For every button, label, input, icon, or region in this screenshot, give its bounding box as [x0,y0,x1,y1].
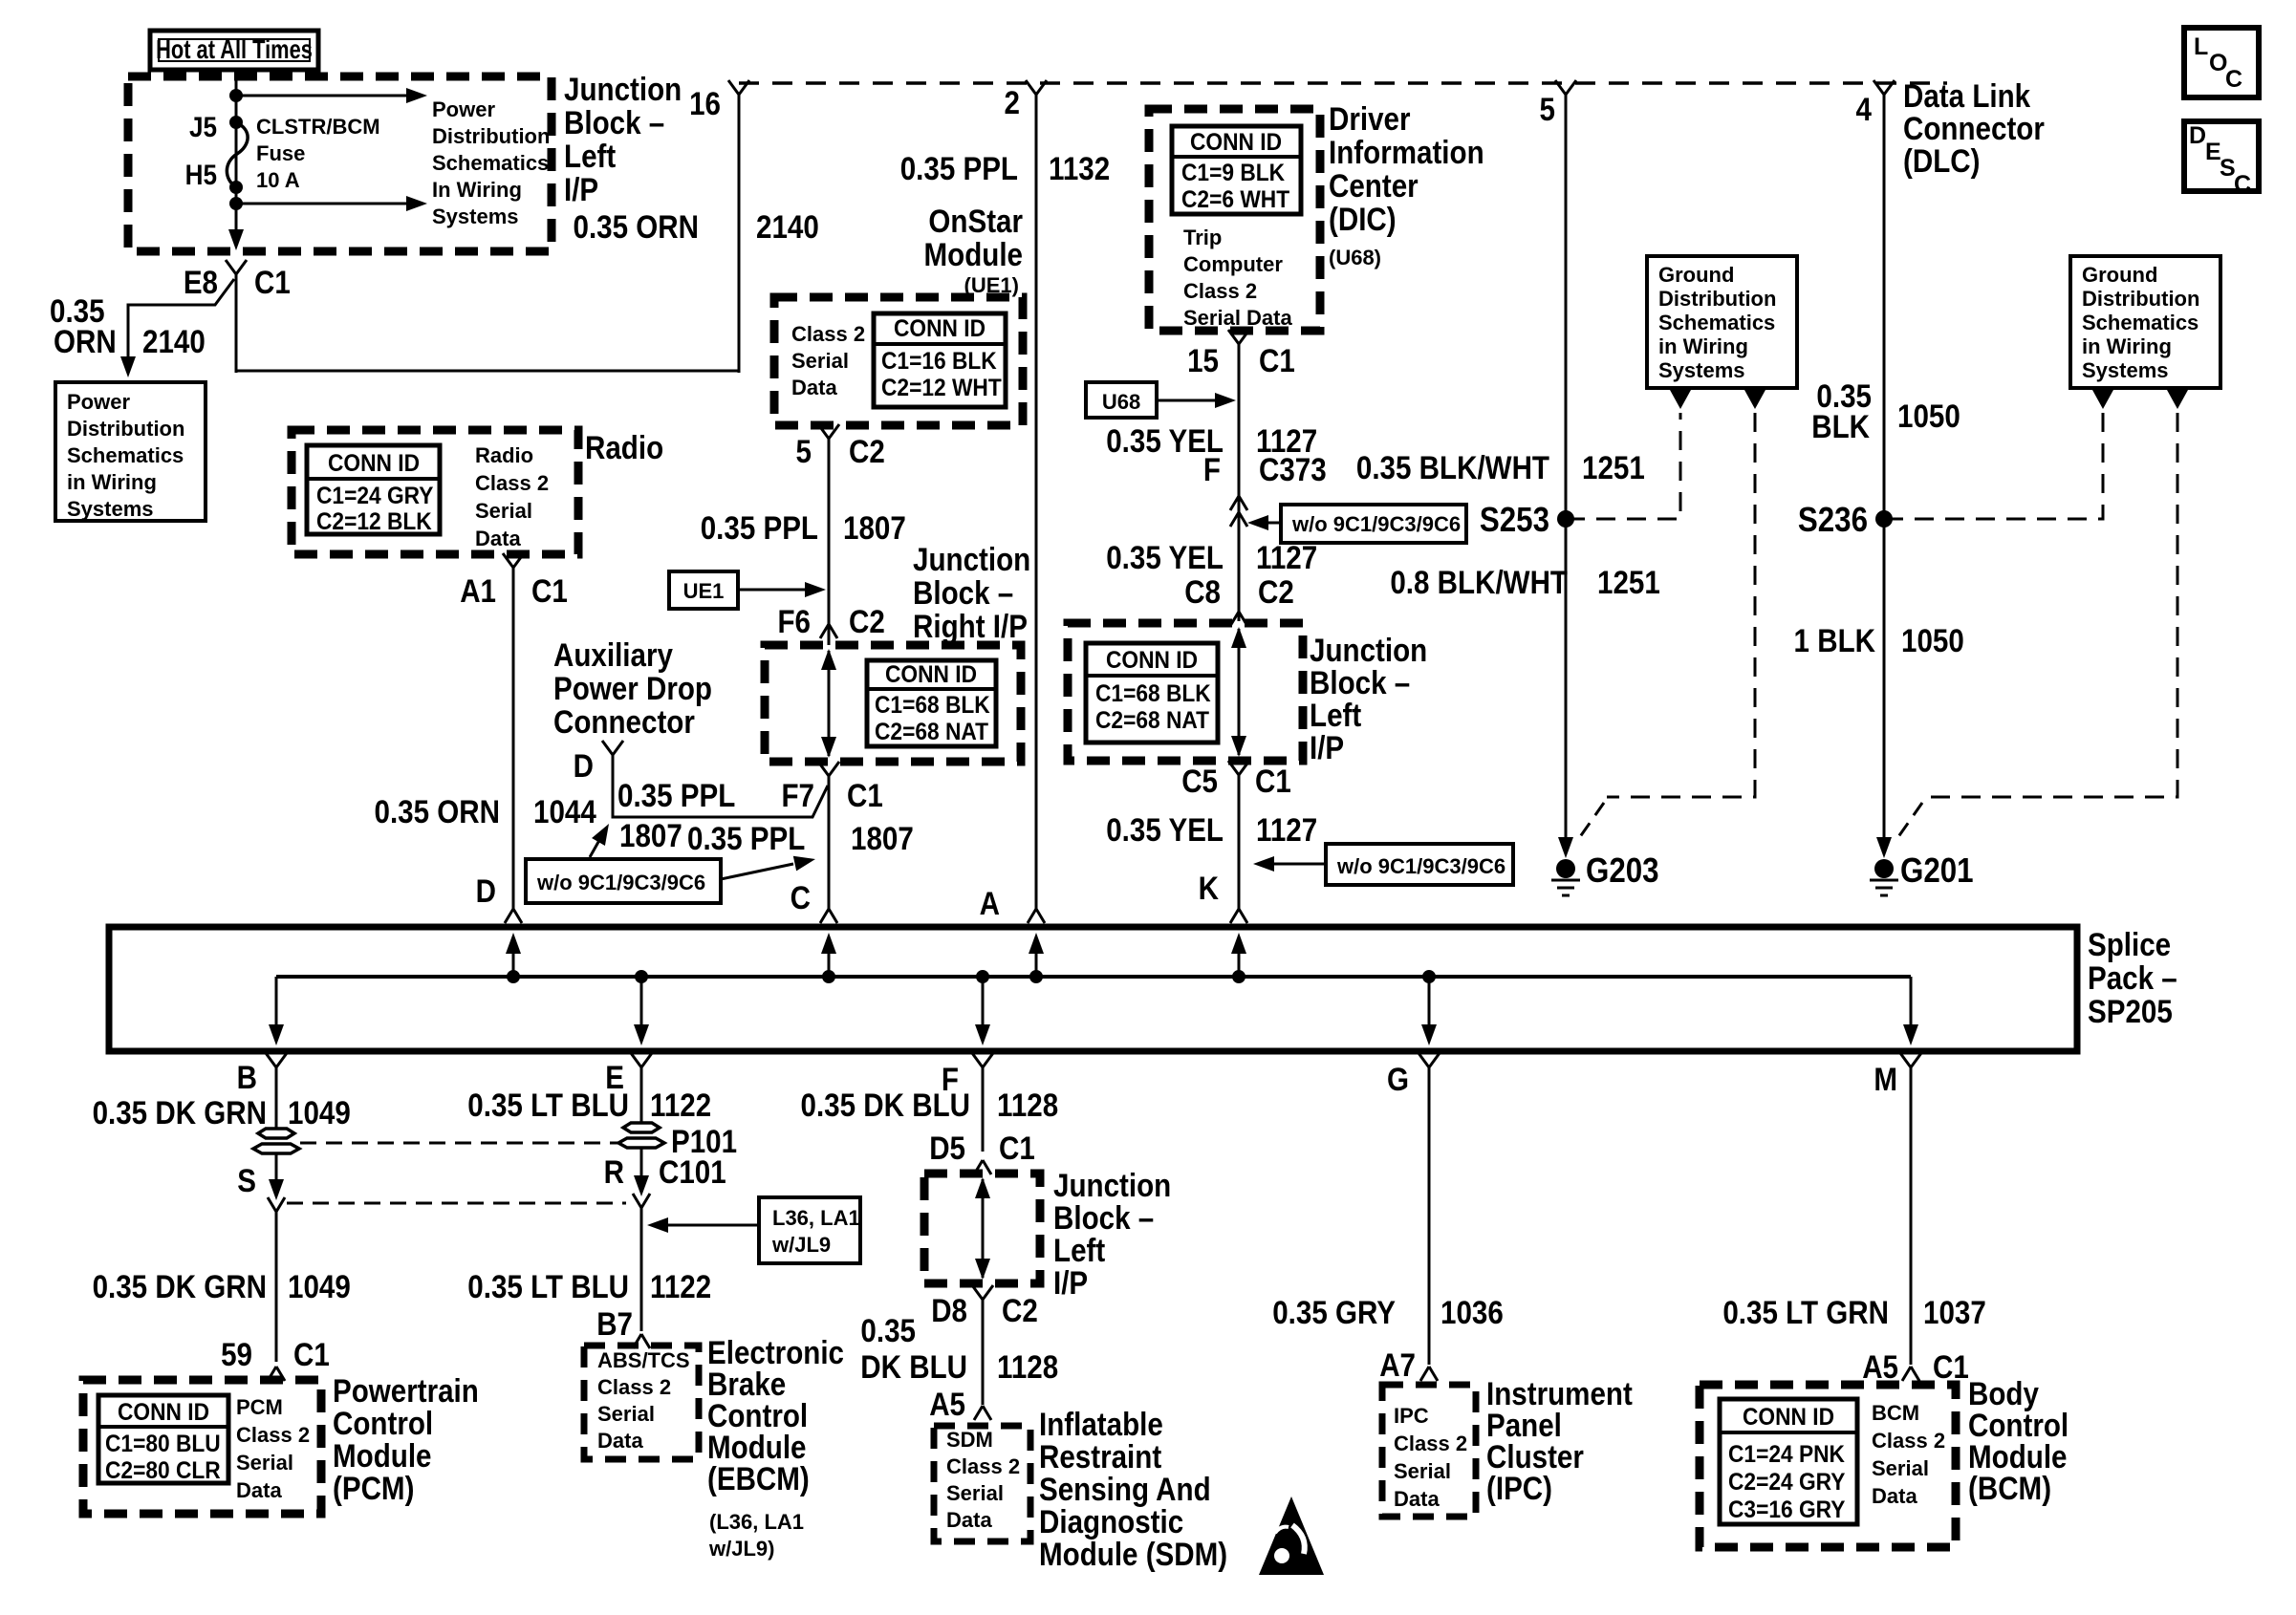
svg-text:C2=68 NAT: C2=68 NAT [875,719,988,745]
svg-text:C101: C101 [659,1153,726,1190]
svg-text:Driver: Driver [1329,100,1410,137]
svg-text:Serial: Serial [791,349,849,373]
svg-text:1807: 1807 [619,817,682,853]
svg-text:0.35 ORN: 0.35 ORN [574,208,699,245]
svg-text:0.35 PPL: 0.35 PPL [701,509,818,546]
svg-text:Center: Center [1329,167,1419,204]
svg-text:Hot at All Times: Hot at All Times [156,34,313,64]
svg-text:Control: Control [333,1405,433,1441]
svg-text:Distribution: Distribution [67,417,184,441]
svg-text:0.35 BLK/WHT: 0.35 BLK/WHT [1356,449,1550,485]
svg-text:0.35 DK BLU: 0.35 DK BLU [801,1087,970,1123]
svg-text:Class 2: Class 2 [597,1375,671,1399]
svg-text:0.35 DK GRN: 0.35 DK GRN [93,1268,267,1304]
svg-text:2140: 2140 [142,323,206,359]
svg-text:Data: Data [791,376,837,399]
svg-text:Data: Data [475,527,521,550]
svg-text:F6: F6 [777,603,811,639]
svg-text:CONN ID: CONN ID [1190,129,1282,156]
svg-text:A1: A1 [460,572,496,609]
svg-text:Block –: Block – [913,574,1013,611]
svg-text:Block –: Block – [564,104,664,140]
svg-text:10 A: 10 A [256,168,300,192]
svg-text:1807: 1807 [851,820,914,856]
svg-text:15: 15 [1187,342,1219,378]
svg-text:1044: 1044 [533,793,596,829]
svg-text:C2=80 CLR: C2=80 CLR [105,1457,221,1484]
svg-text:A: A [980,885,1000,921]
svg-text:w/JL9): w/JL9) [708,1537,774,1561]
svg-text:Serial Data: Serial Data [1183,306,1292,330]
svg-text:D: D [574,747,594,784]
svg-text:Schematics: Schematics [432,151,549,175]
svg-text:C1=9 BLK: C1=9 BLK [1181,160,1286,186]
svg-text:Junction: Junction [564,71,682,107]
svg-text:0.35 PPL: 0.35 PPL [617,777,735,813]
svg-text:2: 2 [1005,84,1020,120]
svg-text:Splice: Splice [2088,926,2171,962]
svg-text:J5: J5 [189,111,217,142]
svg-text:Left: Left [1310,697,1362,733]
svg-text:U68: U68 [1102,390,1140,414]
svg-text:0.35 DK GRN: 0.35 DK GRN [93,1094,267,1130]
svg-text:Distribution: Distribution [432,124,550,148]
svg-text:w/o 9C1/9C3/9C6: w/o 9C1/9C3/9C6 [536,871,705,894]
svg-text:4: 4 [1856,91,1873,127]
svg-text:C2: C2 [849,433,885,469]
svg-text:C: C [791,879,811,915]
svg-text:(IPC): (IPC) [1486,1470,1552,1506]
svg-text:IPC: IPC [1394,1404,1429,1428]
svg-text:Radio: Radio [475,443,533,467]
svg-text:(DLC): (DLC) [1903,142,1980,179]
svg-text:2140: 2140 [756,208,819,245]
svg-text:L: L [2194,33,2208,60]
svg-text:1132: 1132 [1049,150,1110,186]
svg-text:OnStar: OnStar [928,203,1023,239]
svg-text:0.35 PPL: 0.35 PPL [687,820,805,856]
svg-text:Auxiliary: Auxiliary [553,636,673,673]
svg-text:Ground: Ground [1658,263,1734,287]
svg-text:C2: C2 [1258,573,1294,610]
svg-text:M: M [1874,1061,1897,1097]
svg-text:0.35 LT BLU: 0.35 LT BLU [467,1087,629,1123]
svg-text:1049: 1049 [288,1268,351,1304]
svg-text:Class 2: Class 2 [1394,1432,1467,1455]
svg-text:5: 5 [1540,91,1555,127]
svg-text:C2: C2 [849,603,885,639]
svg-text:C8: C8 [1184,573,1221,610]
svg-text:CONN ID: CONN ID [118,1399,209,1426]
svg-text:Trip: Trip [1183,226,1222,249]
svg-text:Data: Data [946,1508,992,1532]
svg-text:Distribution: Distribution [1658,287,1776,311]
svg-text:0.35: 0.35 [860,1312,916,1348]
svg-text:Data: Data [597,1429,643,1453]
svg-text:A7: A7 [1379,1346,1416,1383]
svg-text:Serial: Serial [475,499,532,523]
svg-text:C2=6 WHT: C2=6 WHT [1181,186,1289,213]
svg-text:CONN ID: CONN ID [894,315,986,342]
svg-text:A5: A5 [1862,1348,1898,1385]
svg-text:in Wiring: in Wiring [67,470,157,494]
svg-text:(PCM): (PCM) [333,1470,414,1506]
svg-text:1251: 1251 [1582,449,1645,485]
svg-text:Systems: Systems [432,205,519,228]
svg-text:C1: C1 [1255,763,1291,799]
svg-text:ABS/TCS: ABS/TCS [597,1348,690,1372]
svg-text:1807: 1807 [843,509,906,546]
svg-text:Junction: Junction [1310,632,1427,668]
svg-text:L36, LA1: L36, LA1 [772,1206,860,1230]
svg-text:I/P: I/P [564,171,598,207]
svg-text:C1=80 BLU: C1=80 BLU [105,1431,221,1457]
svg-text:Junction: Junction [1053,1167,1171,1203]
svg-text:CONN ID: CONN ID [885,661,977,688]
svg-text:Serial: Serial [1872,1456,1929,1480]
svg-text:C1=24 PNK: C1=24 PNK [1728,1441,1846,1468]
svg-text:Module (SDM): Module (SDM) [1039,1536,1227,1572]
svg-text:CONN ID: CONN ID [328,450,420,477]
svg-text:in Wiring: in Wiring [2082,334,2172,358]
svg-text:Ground: Ground [2082,263,2157,287]
svg-text:1128: 1128 [997,1348,1058,1385]
svg-text:(U68): (U68) [1329,246,1381,269]
svg-text:C2=68 NAT: C2=68 NAT [1095,707,1209,734]
svg-text:Systems: Systems [2082,358,2169,382]
svg-text:Data: Data [1394,1487,1440,1511]
svg-text:C1=68 BLK: C1=68 BLK [875,692,990,719]
svg-text:0.35 ORN: 0.35 ORN [375,793,500,829]
svg-text:Serial: Serial [946,1481,1004,1505]
svg-text:A5: A5 [929,1386,965,1422]
svg-text:PCM: PCM [236,1395,283,1419]
svg-text:F: F [1203,451,1221,487]
svg-text:C1=24 GRY: C1=24 GRY [316,483,433,509]
svg-text:Sensing And: Sensing And [1039,1471,1211,1507]
svg-text:S: S [237,1162,256,1198]
svg-text:Class 2: Class 2 [1872,1429,1945,1453]
svg-text:5: 5 [796,433,812,469]
svg-text:Left: Left [564,138,617,174]
svg-text:C1: C1 [847,777,883,813]
svg-text:D8: D8 [931,1292,967,1328]
svg-text:D: D [2189,122,2206,149]
svg-text:Right I/P: Right I/P [913,608,1028,644]
svg-text:SP205: SP205 [2088,993,2173,1029]
svg-text:Diagnostic: Diagnostic [1039,1503,1183,1540]
svg-text:1 BLK: 1 BLK [1794,622,1875,658]
svg-text:1050: 1050 [1897,398,1960,434]
svg-text:Restraint: Restraint [1039,1438,1162,1475]
svg-text:C373: C373 [1259,451,1327,487]
svg-text:Class 2: Class 2 [791,322,865,346]
svg-text:I/P: I/P [1053,1264,1088,1301]
svg-text:C1=68 BLK: C1=68 BLK [1095,680,1211,707]
svg-text:Power: Power [67,390,130,414]
svg-text:1127: 1127 [1256,811,1317,848]
svg-text:S236: S236 [1798,501,1868,540]
svg-text:B: B [237,1059,257,1095]
svg-text:0.35 PPL: 0.35 PPL [900,150,1018,186]
svg-text:C3=16 GRY: C3=16 GRY [1728,1497,1845,1523]
svg-text:Power Drop: Power Drop [553,670,712,706]
svg-text:(EBCM): (EBCM) [707,1460,810,1497]
svg-text:(L36, LA1: (L36, LA1 [709,1510,804,1534]
svg-text:Module: Module [333,1437,431,1474]
svg-text:K: K [1199,870,1219,906]
svg-text:BCM: BCM [1872,1401,1919,1425]
svg-text:UE1: UE1 [683,579,725,603]
svg-text:1122: 1122 [650,1087,711,1123]
svg-text:Data: Data [236,1478,282,1502]
svg-text:Class 2: Class 2 [475,471,549,495]
svg-text:59: 59 [221,1336,252,1372]
svg-text:CONN ID: CONN ID [1743,1404,1834,1431]
svg-text:Inflatable: Inflatable [1039,1406,1163,1442]
svg-text:G203: G203 [1586,851,1659,891]
svg-text:Class 2: Class 2 [946,1454,1020,1478]
svg-text:w/o 9C1/9C3/9C6: w/o 9C1/9C3/9C6 [1291,512,1461,536]
svg-text:C5: C5 [1181,763,1218,799]
svg-text:1251: 1251 [1597,564,1660,600]
svg-text:Fuse: Fuse [256,141,305,165]
svg-text:Powertrain: Powertrain [333,1372,479,1409]
svg-text:Serial: Serial [236,1451,293,1475]
svg-text:Class 2: Class 2 [236,1423,310,1447]
svg-text:16: 16 [689,85,721,121]
svg-text:0.35 YEL: 0.35 YEL [1106,539,1224,575]
svg-text:C2: C2 [1002,1292,1038,1328]
svg-text:C1=16 BLK: C1=16 BLK [881,348,997,375]
svg-text:SDM: SDM [946,1428,993,1452]
svg-text:Information: Information [1329,134,1484,170]
svg-text:Module: Module [924,236,1023,272]
svg-text:Distribution: Distribution [2082,287,2199,311]
svg-text:Radio: Radio [585,429,663,465]
svg-text:(BCM): (BCM) [1968,1470,2051,1506]
svg-text:Data: Data [1872,1484,1917,1508]
svg-text:Connector: Connector [1903,110,2045,146]
svg-text:Serial: Serial [1394,1459,1451,1483]
svg-text:Junction: Junction [913,541,1030,577]
svg-text:C2=24 GRY: C2=24 GRY [1728,1469,1845,1496]
svg-text:Block –: Block – [1310,664,1410,700]
svg-text:(DIC): (DIC) [1329,201,1397,237]
svg-text:C: C [2225,66,2242,93]
svg-text:C: C [2234,171,2251,198]
svg-text:D5: D5 [929,1130,965,1166]
svg-text:Schematics: Schematics [1658,311,1775,334]
svg-text:E8: E8 [184,264,218,300]
svg-text:BLK: BLK [1811,408,1870,444]
svg-text:Serial: Serial [597,1402,655,1426]
svg-text:Connector: Connector [553,703,695,740]
svg-text:D: D [476,872,496,909]
svg-text:F7: F7 [781,777,814,813]
svg-text:Systems: Systems [67,497,154,521]
svg-text:G: G [1387,1061,1409,1097]
svg-text:In Wiring: In Wiring [432,178,522,202]
svg-text:0.35 YEL: 0.35 YEL [1106,811,1224,848]
svg-text:Pack –: Pack – [2088,959,2177,996]
svg-text:in Wiring: in Wiring [1658,334,1748,358]
svg-text:w/JL9: w/JL9 [771,1233,831,1257]
svg-text:Data Link: Data Link [1903,77,2030,114]
svg-text:H5: H5 [185,159,217,190]
svg-text:Left: Left [1053,1232,1106,1268]
svg-text:Computer: Computer [1183,252,1283,276]
svg-text:R: R [604,1153,624,1190]
svg-text:I/P: I/P [1310,729,1344,765]
svg-text:0.35 LT GRN: 0.35 LT GRN [1722,1294,1889,1330]
svg-text:0.35 GRY: 0.35 GRY [1272,1294,1396,1330]
svg-text:Block –: Block – [1053,1199,1154,1236]
svg-text:C1: C1 [531,572,568,609]
svg-text:C1: C1 [1933,1348,1969,1385]
svg-text:CONN ID: CONN ID [1106,647,1198,674]
svg-text:1050: 1050 [1901,622,1964,658]
svg-text:C2=12 WHT: C2=12 WHT [881,375,1002,401]
svg-text:DK BLU: DK BLU [860,1348,967,1385]
svg-text:ORN: ORN [54,323,117,359]
svg-text:Schematics: Schematics [67,443,184,467]
svg-text:CLSTR/BCM: CLSTR/BCM [256,115,380,139]
svg-text:C1: C1 [1259,342,1295,378]
svg-text:C1: C1 [293,1336,330,1372]
svg-text:0.35 LT BLU: 0.35 LT BLU [467,1268,629,1304]
svg-text:Class 2: Class 2 [1183,279,1257,303]
svg-text:C1: C1 [999,1130,1035,1166]
svg-text:1122: 1122 [650,1268,711,1304]
svg-text:0.8 BLK/WHT: 0.8 BLK/WHT [1390,564,1568,600]
svg-text:w/o 9C1/9C3/9C6: w/o 9C1/9C3/9C6 [1336,854,1505,878]
svg-text:Systems: Systems [1658,358,1745,382]
svg-text:1049: 1049 [288,1094,351,1130]
svg-text:Power: Power [432,97,495,121]
svg-text:1037: 1037 [1923,1294,1986,1330]
svg-text:C2=12 BLK: C2=12 BLK [316,508,432,535]
svg-text:1036: 1036 [1440,1294,1504,1330]
svg-text:B7: B7 [596,1305,633,1342]
svg-text:G201: G201 [1900,851,1974,891]
svg-text:S253: S253 [1480,501,1549,540]
svg-text:C1: C1 [254,264,291,300]
svg-text:1128: 1128 [997,1087,1058,1123]
svg-text:Schematics: Schematics [2082,311,2199,334]
